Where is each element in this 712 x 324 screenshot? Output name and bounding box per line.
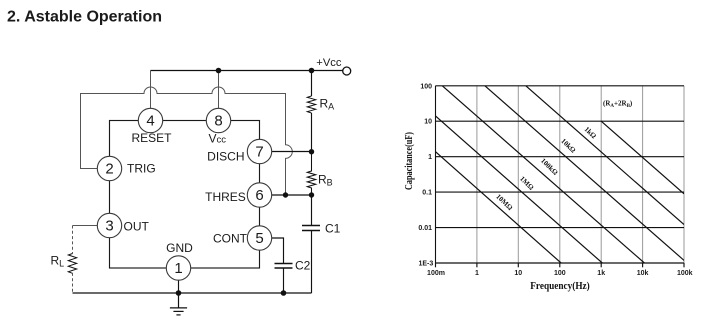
curve 1Mohm <box>436 116 603 263</box>
resistor RA <box>307 96 315 113</box>
svg-text:6: 6 <box>255 187 263 204</box>
node junction ground/C2 <box>281 290 287 296</box>
svg-text:3: 3 <box>105 217 113 234</box>
svg-text:+Vcc: +Vcc <box>316 57 342 69</box>
svg-text:8: 8 <box>214 113 222 130</box>
pin 8 VCC <box>206 108 230 145</box>
svg-text:10MΩ: 10MΩ <box>494 193 514 213</box>
svg-text:100: 100 <box>554 270 566 277</box>
pin 5 CONT <box>213 226 272 250</box>
wire C1 bottom lead <box>311 231 313 294</box>
curve 100kohm <box>442 86 644 263</box>
wire stub pin8 to +Vcc rail <box>218 71 220 109</box>
svg-text:10k: 10k <box>637 270 649 277</box>
svg-text:1: 1 <box>475 270 479 277</box>
svg-text:Vcc: Vcc <box>209 131 227 145</box>
svg-text:C1: C1 <box>325 222 341 236</box>
wire RA top lead <box>311 71 313 97</box>
svg-text:7: 7 <box>255 143 263 160</box>
svg-text:RA: RA <box>320 97 335 112</box>
wire RA to DISCH junction <box>311 113 313 152</box>
wire OUT dashed to RL <box>73 225 98 227</box>
chart horizontal gridlines <box>436 86 685 263</box>
terminal +Vcc <box>343 67 351 75</box>
node junction rail/RA <box>309 68 315 74</box>
node junction gray wire / THRES <box>283 192 288 197</box>
svg-text:2. Astable Operation: 2. Astable Operation <box>7 9 162 26</box>
curve 1kohm <box>526 86 684 225</box>
wire pin7 DISCH to RA/RB junction <box>272 151 312 153</box>
curve extra <box>601 121 684 194</box>
wire TRIG-THRES gray path (pin2 left, up, across with hops, down to pin6 row) <box>81 87 293 195</box>
svg-text:RL: RL <box>51 254 65 269</box>
svg-text:0.1: 0.1 <box>422 190 432 197</box>
svg-text:0.01: 0.01 <box>418 225 432 232</box>
svg-text:10: 10 <box>514 270 522 277</box>
svg-text:TRIG: TRIG <box>127 162 156 176</box>
x axis tick labels <box>427 270 693 277</box>
svg-text:5: 5 <box>255 230 263 247</box>
svg-text:(RA+2RB): (RA+2RB) <box>603 100 633 110</box>
y axis tick labels <box>418 83 433 267</box>
chart vertical gridlines <box>477 86 684 263</box>
wire pin5 CONT to C2 <box>272 238 284 264</box>
svg-text:CONT: CONT <box>213 231 248 245</box>
svg-text:100k: 100k <box>677 270 693 277</box>
svg-text:1: 1 <box>428 154 432 161</box>
pin 3 OUT <box>97 213 149 237</box>
svg-text:RESET: RESET <box>131 131 172 145</box>
pin 1 GND <box>166 241 193 280</box>
node junction RA/RB/DISCH <box>309 149 314 154</box>
wire ground bus <box>73 292 312 294</box>
curve 10kohm <box>485 86 687 263</box>
capacitor C2 <box>275 264 293 269</box>
svg-text:1E-3: 1E-3 <box>419 261 434 268</box>
node junction RB/C1 <box>309 192 314 197</box>
svg-text:1MΩ: 1MΩ <box>518 175 535 192</box>
resistor RL <box>68 254 76 274</box>
wire +Vcc rail <box>151 70 343 72</box>
wire stub pin4 to +Vcc rail <box>150 71 152 109</box>
svg-text:Frequency(Hz): Frequency(Hz) <box>530 281 590 292</box>
svg-text:1k: 1k <box>597 270 605 277</box>
svg-text:THRES: THRES <box>205 190 246 204</box>
svg-text:DISCH: DISCH <box>207 149 244 163</box>
svg-text:C2: C2 <box>295 259 311 273</box>
node junction rail/pin8 <box>216 68 222 74</box>
pin 6 THRES <box>205 183 272 207</box>
svg-text:GND: GND <box>166 241 193 255</box>
IC body box U1 <box>110 121 260 269</box>
svg-text:100m: 100m <box>427 270 445 277</box>
svg-text:1: 1 <box>174 260 182 277</box>
pin 4 RESET <box>131 108 172 145</box>
wire RL dashed to ground bus <box>72 273 74 293</box>
wire pin6 THRES to RB/C1 junction <box>272 194 312 196</box>
svg-text:2: 2 <box>105 160 113 177</box>
curve 10Mohm <box>436 86 688 263</box>
chart axes <box>436 86 685 263</box>
node junction ground/pin1 <box>176 290 182 296</box>
svg-text:RB: RB <box>318 173 333 188</box>
chart bottom ticks <box>436 263 685 267</box>
resistor RB <box>307 152 315 195</box>
svg-text:10kΩ: 10kΩ <box>559 137 577 155</box>
svg-text:10: 10 <box>424 119 432 126</box>
wire C2 bottom lead <box>283 268 285 293</box>
svg-text:OUT: OUT <box>124 219 150 233</box>
wire C1 top lead <box>311 195 313 226</box>
ground <box>170 293 187 315</box>
wire pin1 GND lead <box>178 280 180 293</box>
svg-text:Capacitance(uF): Capacitance(uF) <box>404 132 415 190</box>
svg-text:4: 4 <box>146 113 154 130</box>
chart: frequency vs capacitance <box>404 83 693 291</box>
pin 2 TRIG <box>97 156 155 180</box>
svg-text:100: 100 <box>420 83 432 90</box>
pin 7 DISCH <box>207 139 272 163</box>
capacitor C1 <box>302 226 320 231</box>
